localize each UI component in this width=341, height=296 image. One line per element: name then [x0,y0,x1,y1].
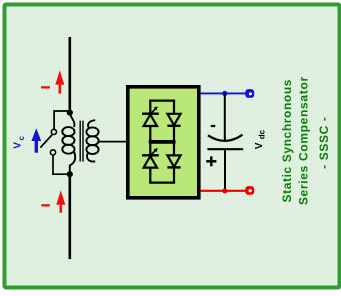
terminal red [245,186,254,195]
wire: capacitor bottom lead [224,149,226,191]
transformer T1 secondary winding [86,120,98,161]
switch contact lower [50,150,55,155]
node junction bottom [67,171,73,177]
thyristor Q2 gate arrow [152,148,158,154]
node ticks mid rail [149,140,152,143]
cell 1 top rail [149,99,175,101]
svg-text:Static Synchronous: Static Synchronous [280,79,294,202]
wire: DC positive (blue) [200,92,245,94]
wire: capacitor top lead [224,93,226,140]
switch contact upper [51,129,56,134]
wire: secondary to converter [98,141,127,143]
cell 2 bottom rail [149,182,175,184]
thyristor Q1 gate arrow [152,106,158,112]
transformer T1 primary winding [62,113,75,172]
converter box [128,87,199,198]
wire: transmission line bottom segment [69,174,72,259]
current arrow top (red) [55,70,64,93]
svg-text:- SSSC -: - SSSC - [317,117,331,169]
svg-text:Series Compensator: Series Compensator [297,77,311,206]
cell 1 bottom rail [149,140,175,142]
capacitor C1 straight plate [207,148,243,150]
current arrow bottom (red) [56,190,65,212]
node on blue wire [222,91,227,96]
minus label capacitor [211,125,215,127]
node junction top [67,110,73,116]
wire: DC negative (red) [200,190,245,192]
minus label bottom (red) [41,204,50,206]
plus label capacitor [206,156,216,166]
minus label top (red) [41,86,50,88]
wire: transmission line top segment [69,37,72,113]
node on red wire [222,188,227,193]
thyristor Q1 [142,101,159,141]
voltage arrow Vc (blue) [31,128,41,152]
wire: switch branch top [54,111,70,129]
thyristor Q2 [142,143,159,183]
terminal blue [245,89,254,98]
wire: switch branch bottom [53,155,70,174]
cell 2 top rail [149,142,175,144]
transformer core [79,121,81,162]
diode D2 [167,143,180,183]
switch blade [40,135,52,148]
capacitor C1 curved plate [208,135,243,141]
diode D1 [167,101,180,141]
